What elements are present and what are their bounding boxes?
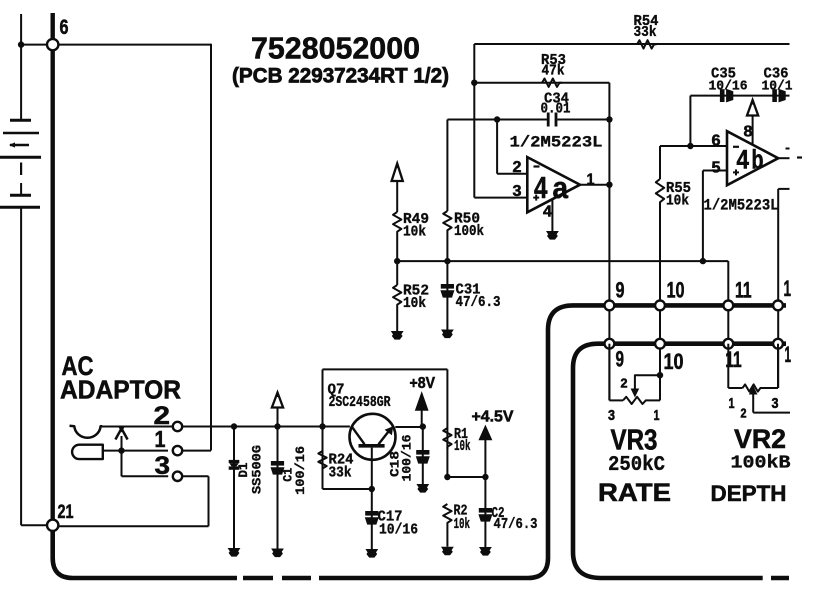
wire VR3 left lead xyxy=(608,399,610,401)
svg-text:1: 1 xyxy=(785,342,792,367)
svg-text:2: 2 xyxy=(513,159,522,176)
svg-text:SS500G: SS500G xyxy=(249,445,264,494)
svg-text:47/6.3: 47/6.3 xyxy=(456,294,501,311)
label C1 100/16 xyxy=(281,446,308,495)
svg-text:1: 1 xyxy=(654,408,660,424)
ground below R52 xyxy=(391,331,404,340)
wire battery top lead xyxy=(20,14,22,119)
supply arrow above R49 xyxy=(392,163,403,213)
junction output 4a xyxy=(606,182,612,188)
jack pin 2 xyxy=(154,402,183,431)
capacitor C18 xyxy=(387,427,430,484)
svg-text:1: 1 xyxy=(729,396,735,412)
svg-text:10/1: 10/1 xyxy=(762,79,793,95)
op-amp U4b xyxy=(727,131,778,185)
svg-text:VR2: VR2 xyxy=(734,424,786,454)
svg-text:47k: 47k xyxy=(542,63,565,80)
supply arrow above C1 xyxy=(272,392,283,427)
svg-text:21: 21 xyxy=(58,502,74,523)
VR2 pin 3 label xyxy=(772,396,779,412)
wire node6 horizontal xyxy=(21,44,211,46)
svg-text:7528052000: 7528052000 xyxy=(251,31,420,66)
ground below D1 xyxy=(228,548,241,557)
node 9 top xyxy=(605,278,625,311)
svg-text:100kB: 100kB xyxy=(731,453,791,474)
svg-text:3: 3 xyxy=(608,408,615,424)
svg-text:3: 3 xyxy=(513,183,522,200)
junction pin5/integrator rail xyxy=(700,258,706,264)
wire 4a output column xyxy=(608,120,610,306)
junction base-divider tap xyxy=(319,423,325,429)
wire 4b feedback return column xyxy=(778,189,789,388)
resistor R49 xyxy=(393,211,429,261)
resistor R24 xyxy=(318,427,372,490)
svg-text:2SC2458GR: 2SC2458GR xyxy=(329,394,391,411)
capacitor C31 xyxy=(440,261,500,329)
label D1 SS500G xyxy=(236,445,264,494)
svg-text:+8V: +8V xyxy=(410,375,436,392)
wire jack pin2 lead xyxy=(101,426,173,428)
thick battery-plus bus (node 6 to node 21) xyxy=(51,13,55,525)
label VR2 xyxy=(734,424,786,454)
label 1/2M5223L (4a) xyxy=(510,134,603,152)
svg-text:6: 6 xyxy=(712,132,721,149)
transistor Q7 xyxy=(350,414,396,489)
node 21 connector pin xyxy=(47,502,74,531)
wire top bias link xyxy=(323,369,448,426)
VR3 pin 1 label xyxy=(654,408,660,424)
capacitor C17 xyxy=(365,489,418,549)
VR3 pin 2 label xyxy=(621,377,628,391)
ground below C18 xyxy=(416,484,429,493)
resistor R55 xyxy=(656,179,691,305)
junction C34 left xyxy=(494,116,500,122)
wire op-amp pin2 lead xyxy=(497,120,527,174)
capacitor C35 xyxy=(709,66,748,103)
node 10 top xyxy=(655,278,684,311)
op-amp U4a xyxy=(527,157,580,212)
label Q7 xyxy=(328,382,391,412)
wire battery bottom lead xyxy=(21,207,47,525)
resistor R52 xyxy=(393,261,429,331)
wire Q7 emitter xyxy=(395,426,423,428)
svg-text:2: 2 xyxy=(621,377,628,391)
ground below C17 xyxy=(365,549,378,558)
svg-text:10k: 10k xyxy=(454,438,471,455)
resistor R54 xyxy=(634,13,659,48)
label 1/2M5223L (4b) xyxy=(704,197,779,215)
svg-text:VR3: VR3 xyxy=(611,424,658,456)
wire C34 to R50 column xyxy=(447,120,497,212)
wire op-amp output pin 1 xyxy=(580,172,609,189)
svg-text:10k: 10k xyxy=(403,224,426,241)
junction Q7 base node xyxy=(369,486,375,492)
node 10 bottom xyxy=(655,339,683,374)
wire C34 feedback xyxy=(497,119,609,121)
wire jack pin1 lead xyxy=(103,450,212,452)
wire pin5 lead (4b) xyxy=(703,171,727,262)
resistor R53 xyxy=(541,52,566,87)
pin 6 label (4b) xyxy=(712,132,721,149)
capacitor C34 xyxy=(541,91,571,127)
svg-text:3: 3 xyxy=(772,396,779,412)
svg-text:1: 1 xyxy=(155,426,166,452)
svg-text:2: 2 xyxy=(741,406,747,420)
pin 3 label (4a) xyxy=(513,183,522,200)
junction D1 xyxy=(231,423,237,429)
jack sleeve contact symbol xyxy=(70,426,103,438)
svg-text:RATE: RATE xyxy=(598,479,671,507)
svg-text:10/16: 10/16 xyxy=(709,79,748,95)
supply +8V xyxy=(410,375,436,427)
wire main 9V rail xyxy=(182,426,350,428)
junction C2 xyxy=(482,474,488,480)
svg-text:1: 1 xyxy=(784,276,792,301)
ground at pin 4 (4a) xyxy=(546,231,559,240)
thick cable bus path A (node 21 to top connector row) xyxy=(53,305,786,578)
label 100kB xyxy=(731,453,791,474)
ground below R2 xyxy=(441,547,454,556)
svg-text:250kC: 250kC xyxy=(608,453,665,477)
svg-text:4: 4 xyxy=(543,204,552,221)
svg-text:11: 11 xyxy=(735,278,752,303)
svg-text:(PCB 22937234RT 1/2): (PCB 22937234RT 1/2) xyxy=(232,64,449,88)
node 12 bottom xyxy=(773,339,791,367)
svg-text:100/16: 100/16 xyxy=(293,446,308,495)
wire jack pin3 to node21 xyxy=(58,476,209,526)
wire R53 feedback xyxy=(474,44,609,83)
svg-text:DEPTH: DEPTH xyxy=(711,481,787,506)
ground below C31 xyxy=(441,330,454,339)
svg-text:5: 5 xyxy=(712,160,721,177)
junction R49 bottom xyxy=(394,258,400,264)
node 12 top xyxy=(773,276,791,310)
svg-text:8: 8 xyxy=(744,124,753,141)
ground below C1 xyxy=(271,549,284,558)
svg-text:1/2M5223L: 1/2M5223L xyxy=(510,134,603,152)
svg-text:47/6.3: 47/6.3 xyxy=(494,516,538,533)
title PCB 22937234RT 1/2 xyxy=(232,64,449,88)
VR2 pin 2 label xyxy=(741,406,747,420)
node 11 bottom xyxy=(723,339,741,372)
junction C35 column xyxy=(687,143,693,149)
junction +8V node xyxy=(420,423,426,429)
supply +4.5V xyxy=(472,408,515,477)
svg-text:4: 4 xyxy=(737,144,750,174)
wire jack pin3 branch xyxy=(122,451,169,477)
junction R50/C31 xyxy=(444,258,450,264)
svg-text:10/16: 10/16 xyxy=(379,522,418,539)
wire node10 column xyxy=(659,305,661,375)
supply arrow above 4b pin 8 xyxy=(744,99,759,144)
label VR3 xyxy=(611,424,658,456)
wire LFO integrator rail xyxy=(397,261,728,305)
wire op-amp pin3 lead xyxy=(474,83,527,198)
wire node9 column xyxy=(608,305,610,400)
svg-text:10k: 10k xyxy=(403,295,426,312)
pin 5 label (4b) xyxy=(712,160,721,177)
wire 4b output stub xyxy=(778,149,802,159)
svg-text:ADAPTOR: ADAPTOR xyxy=(60,377,181,405)
svg-text:6: 6 xyxy=(60,16,69,39)
wire R53/C34 right link xyxy=(608,83,610,120)
junction C34 right xyxy=(606,116,612,122)
battery BT1 plates xyxy=(0,120,41,207)
svg-text:1/2M5223L: 1/2M5223L xyxy=(704,197,779,215)
node 6 connector pin xyxy=(47,16,69,50)
resistor R50 xyxy=(443,211,484,262)
pin 4 lead (4a) xyxy=(543,200,552,232)
VR2 pin 1 label xyxy=(729,396,735,412)
AC ADAPTOR label xyxy=(60,351,181,404)
junction VR3 wiper tap xyxy=(657,372,663,378)
svg-text:9: 9 xyxy=(616,347,625,372)
label RATE xyxy=(598,479,671,507)
node 9 bottom xyxy=(605,339,625,372)
svg-text:b: b xyxy=(752,144,764,174)
svg-text:100k: 100k xyxy=(454,223,484,240)
jack pin 3 xyxy=(155,452,183,481)
thick cable bus path B (bottom right to lower connector row) xyxy=(573,344,789,578)
resistor R1 xyxy=(443,369,470,477)
svg-text:9: 9 xyxy=(616,278,625,303)
junction battery/node6 wire xyxy=(18,41,24,47)
ground below C2 xyxy=(479,547,492,556)
wire node11 column xyxy=(727,305,729,343)
VR3 pin 3 label xyxy=(608,408,615,424)
svg-text:33k: 33k xyxy=(329,465,352,482)
potentiometer VR3 xyxy=(609,344,660,404)
jack switch arrow xyxy=(115,427,127,454)
label DEPTH xyxy=(711,481,787,506)
diode D1 xyxy=(229,427,240,549)
svg-text:0.01: 0.01 xyxy=(541,101,571,118)
svg-text:10: 10 xyxy=(667,278,685,303)
capacitor C36 xyxy=(762,66,793,103)
junction C1 xyxy=(274,423,280,429)
jack pin 1 xyxy=(155,426,183,455)
svg-text:100/16: 100/16 xyxy=(400,434,415,481)
node 11 top xyxy=(723,278,751,311)
potentiometer VR2 xyxy=(728,344,790,413)
jack plug tip symbol xyxy=(72,445,103,459)
svg-text:+4.5V: +4.5V xyxy=(472,408,515,425)
title part number 7528052000 xyxy=(251,31,420,66)
svg-text:10: 10 xyxy=(664,349,684,374)
junction R53 left xyxy=(471,80,477,86)
wire to 4.5V node xyxy=(447,476,485,478)
wire R54 top rail xyxy=(474,43,789,45)
svg-text:10k: 10k xyxy=(454,516,471,533)
wire pin6 lead (4b) xyxy=(660,146,727,179)
wire VR3 right lead xyxy=(659,375,661,400)
svg-text:1: 1 xyxy=(587,172,595,189)
pin 2 label (4a) xyxy=(513,159,522,176)
capacitor C1 xyxy=(271,427,285,549)
label 250kC xyxy=(608,453,665,477)
svg-text:33k: 33k xyxy=(634,24,657,41)
svg-text:3: 3 xyxy=(155,452,171,480)
wire jack frame (node6 top edge / right edge to pin1) xyxy=(210,44,212,451)
wire C35/C36 rail xyxy=(690,96,789,146)
svg-text:a: a xyxy=(553,170,569,205)
capacitor C2 xyxy=(478,477,537,547)
svg-text:10k: 10k xyxy=(666,193,689,210)
resistor R2 xyxy=(443,503,470,547)
junction R1/R2 xyxy=(444,474,450,480)
